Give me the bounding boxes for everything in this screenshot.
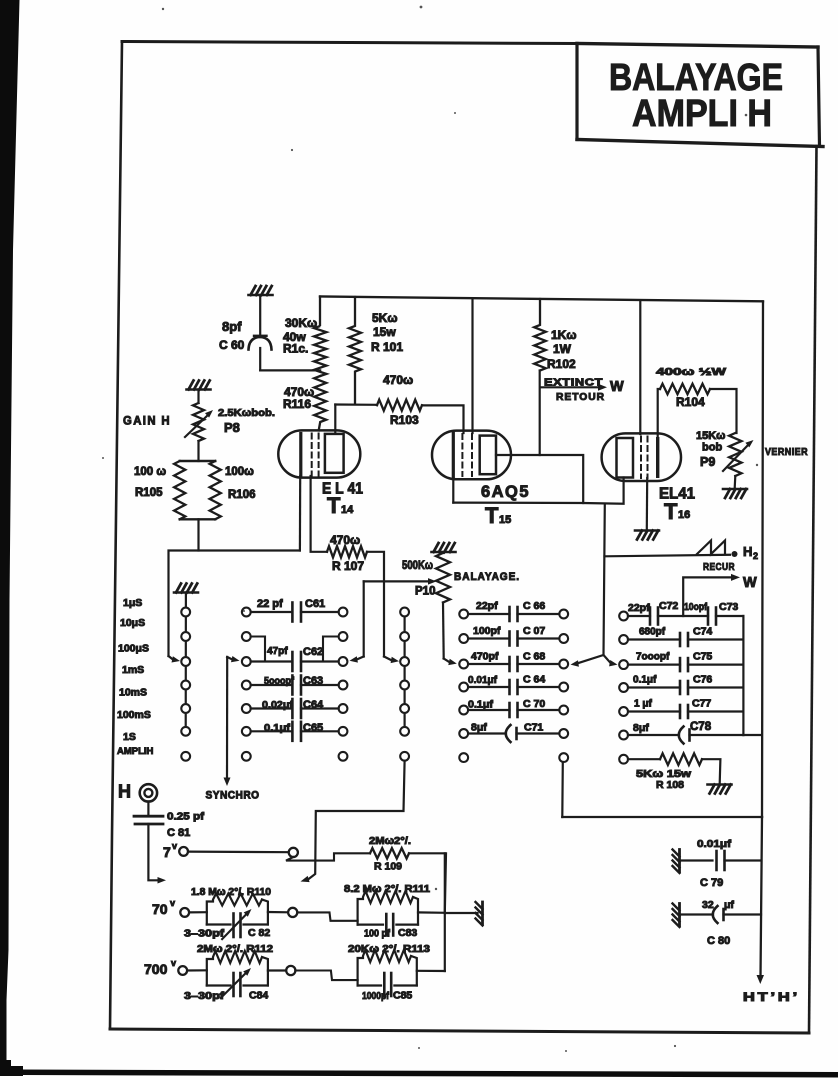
title box "BALAYAGE AMPLI H" — [577, 44, 823, 147]
wire: 7v to link contact — [188, 850, 289, 853]
ground below R108 — [708, 783, 732, 786]
svg-text:1000pf: 1000pf — [362, 991, 390, 1002]
svg-text:C61: C61 — [305, 598, 325, 610]
svg-text:v: v — [172, 841, 177, 851]
svg-text:RECUR: RECUR — [703, 562, 735, 573]
svg-text:C 82: C 82 — [248, 927, 270, 939]
T14 anode box — [325, 434, 344, 473]
capacitor C73 100pf — [683, 615, 708, 617]
svg-text:R 109: R 109 — [374, 861, 402, 873]
capacitor C85 1000pf (bottom of box) — [358, 984, 381, 986]
svg-text:RETOUR: RETOUR — [556, 391, 605, 403]
svg-text:470ω: 470ω — [383, 373, 413, 387]
wire: R113 to common node — [417, 970, 445, 972]
svg-text:C 60: C 60 — [219, 338, 245, 352]
capacitor C64 0.02uf — [251, 707, 293, 709]
switch contacts column A — [181, 608, 190, 617]
svg-text:10mS: 10mS — [119, 687, 147, 699]
capacitor C70 0.1uf — [468, 709, 509, 711]
svg-text:C84: C84 — [249, 990, 268, 1002]
svg-text:500Kω: 500Kω — [402, 560, 433, 572]
wire: R109 to common node — [409, 853, 446, 913]
svg-text:C 70: C 70 — [523, 698, 545, 710]
svg-text:100ω: 100ω — [225, 466, 254, 478]
capacitor C75 7000pf — [628, 663, 680, 665]
svg-text:8pf: 8pf — [222, 319, 242, 334]
capacitor C69 0.01uf (labelled C64) — [468, 686, 509, 688]
svg-text:22pf: 22pf — [476, 600, 498, 612]
wire: R101/R103 to T14 anode — [335, 403, 377, 405]
svg-text:100 pf: 100 pf — [364, 929, 391, 940]
wire: C60 to R100/R116 junction — [260, 369, 320, 371]
sawtooth waveform symbol — [697, 541, 725, 555]
svg-text:AMPLI H: AMPLI H — [632, 93, 772, 135]
wire: R102 down to T15 anode line — [539, 371, 541, 456]
wire: C81 down to AMPLI link arrow — [148, 824, 158, 880]
scan artifact: left black strip — [0, 0, 23, 1076]
svg-text:R 101: R 101 — [371, 340, 403, 354]
svg-text:8μf: 8μf — [633, 722, 649, 734]
wire: common node vertical — [444, 853, 446, 971]
svg-text:22pf: 22pf — [628, 602, 650, 614]
capacitor C68 470pf — [468, 663, 509, 665]
resistor R112 2M 2% (top of box) — [207, 951, 268, 986]
chassis hatch (attenuator common) — [481, 902, 484, 924]
svg-text:SYNCHRO: SYNCHRO — [206, 790, 260, 802]
switch contacts column D — [400, 608, 409, 617]
wire: riser from cathode loop down to wiper F/G — [604, 504, 605, 655]
wire: 700v jog to R113 — [295, 971, 357, 981]
resistor R109 2M 2% — [370, 848, 409, 858]
svg-text:R105: R105 — [135, 487, 163, 499]
svg-text:W: W — [743, 575, 757, 591]
svg-text:P8: P8 — [224, 420, 240, 435]
terminal H input — [140, 784, 157, 801]
svg-text:C62: C62 — [303, 646, 323, 658]
wire: R108 to ground — [702, 759, 720, 783]
wire: R104 to P9 — [710, 389, 737, 433]
svg-text:0.01μf: 0.01μf — [468, 675, 498, 686]
T16 anode box — [617, 438, 634, 478]
svg-text:C83: C83 — [398, 927, 417, 939]
border frame of schematic page — [110, 42, 817, 1034]
svg-text:0.1μf: 0.1μf — [633, 675, 657, 686]
wire: cathode rail to switch wiper A — [169, 551, 300, 657]
switch contacts column E — [459, 610, 468, 619]
wire: H to C81 — [147, 802, 149, 816]
svg-text:100pf: 100pf — [473, 625, 501, 637]
svg-text:C85: C85 — [393, 990, 412, 1002]
svg-text:1.8 Mω 2°/. R110: 1.8 Mω 2°/. R110 — [191, 887, 271, 898]
chassis hatch for C79 — [678, 850, 681, 872]
tube T15 6AQ5 envelope — [432, 431, 511, 480]
svg-text:1μS: 1μS — [123, 597, 142, 609]
T15 grid2 (dashed) pin — [471, 434, 473, 476]
wire: box to link contact (70v row) — [268, 911, 288, 913]
wire: switch column D common — [404, 612, 406, 731]
capacitor C71 8uf electrolytic — [468, 732, 506, 734]
svg-text:15w: 15w — [373, 325, 396, 339]
resistor R101 5K 15w — [349, 297, 361, 404]
wire: R105/R106 to cathode rail — [197, 519, 199, 550]
svg-text:H: H — [118, 782, 131, 802]
svg-text:R104: R104 — [676, 395, 705, 409]
resistor R116 470w — [314, 376, 326, 430]
svg-text:2.5Kωbob.: 2.5Kωbob. — [218, 407, 275, 419]
ground below T16 — [635, 529, 659, 532]
svg-text:100μS: 100μS — [118, 643, 149, 655]
wire: contacts B2/C2 tied to row 3 — [251, 637, 265, 662]
svg-text:10μS: 10μS — [120, 617, 145, 629]
ground above P10 — [432, 551, 456, 554]
T14 grid (dashed) pin — [311, 434, 313, 476]
svg-text:15Kω: 15Kω — [696, 430, 725, 442]
svg-text:C 66: C 66 — [523, 600, 545, 612]
wire: T16 grid2 to ground — [646, 478, 649, 529]
wire: 70v to R110 — [189, 911, 207, 913]
svg-text:R102: R102 — [547, 357, 576, 371]
T14 cathode bar — [299, 434, 302, 477]
wire: R103 to T15 grid — [422, 405, 464, 433]
wire: T16 cathode top to R104 — [658, 389, 660, 438]
svg-text:GAIN H: GAIN H — [123, 414, 171, 428]
wire: T14 grid down to R107 — [311, 476, 327, 552]
resistor R103 470w — [377, 400, 422, 411]
node W: EXTINCT RETOUR output arrow — [541, 386, 601, 388]
svg-text:8μf: 8μf — [471, 722, 487, 734]
capacitor C74 680pf — [628, 638, 680, 640]
switch contacts column C — [339, 608, 348, 617]
svg-text:2: 2 — [753, 551, 758, 561]
svg-text:C75: C75 — [693, 651, 712, 663]
capacitor C65 0.1uf — [251, 730, 293, 732]
link contact (7v row) — [289, 848, 298, 857]
svg-text:R103: R103 — [390, 413, 419, 427]
svg-text:R106: R106 — [228, 489, 256, 501]
svg-text:1Kω: 1Kω — [551, 328, 576, 342]
svg-text:BALAYAGE.: BALAYAGE. — [454, 571, 520, 583]
T15 grid (dashed) pin — [461, 434, 463, 476]
svg-text:VERNIER: VERNIER — [765, 447, 808, 458]
switch contacts column G — [619, 612, 628, 621]
potentiometer P9 15K bob — [723, 433, 749, 476]
trimmer capacitor C82 3-30pf (bottom of box) — [207, 923, 231, 925]
wire: contact F7 down to HT rail — [561, 762, 564, 817]
svg-text:7: 7 — [163, 844, 171, 860]
svg-text:R 108: R 108 — [656, 779, 684, 791]
svg-text:8.2 Mω 2°/. R111: 8.2 Mω 2°/. R111 — [344, 884, 430, 895]
svg-text:5ooopf: 5ooopf — [264, 676, 295, 687]
capacitor C63 5000pf — [251, 684, 293, 686]
svg-text:470ω: 470ω — [330, 533, 360, 547]
wire: R111 to common node and chassis — [418, 911, 445, 914]
capacitor C81 0.25pf — [134, 815, 163, 818]
wire: SYNCHRO lead down — [226, 657, 228, 779]
wire: cathode loop over to T16 anode — [583, 478, 623, 504]
wire: HT bus drop to T16 grid — [639, 302, 641, 435]
svg-text:2Mω 2°/. R112: 2Mω 2°/. R112 — [197, 944, 273, 955]
wire: T15 anode to R102 drop and down — [453, 455, 583, 503]
wire: switch column A common — [185, 593, 187, 732]
resistor R113 20K 2% (top of box) — [358, 950, 417, 986]
capacitor C76 0.1uf — [628, 686, 680, 688]
resistor R107 470w — [327, 546, 367, 557]
wire: box to link contact (700v row) — [268, 969, 286, 971]
wire: T15 cathode down — [452, 477, 454, 503]
wire: 70v jog to R111 — [297, 912, 357, 920]
svg-text:C72: C72 — [659, 600, 678, 612]
svg-text:T: T — [485, 503, 499, 528]
P10 wiper arrow — [364, 580, 429, 582]
svg-text:C 07: C 07 — [523, 625, 545, 637]
svg-text:1 μf: 1 μf — [634, 699, 652, 710]
wire: P10 wiper to contact C3 — [363, 581, 365, 656]
resistor R110 1.8M 2% (top of box) — [207, 894, 268, 925]
svg-text:6AQ5: 6AQ5 — [481, 483, 530, 501]
terminal 700v — [178, 966, 187, 975]
switch contacts column B — [242, 608, 251, 617]
capacitor C79 0.01uf — [680, 859, 713, 861]
T16 grid (dashed) pin — [640, 437, 642, 479]
ground above P8 — [187, 388, 211, 391]
T15 anode box — [480, 436, 496, 475]
svg-text:v: v — [170, 898, 175, 908]
svg-text:2Mω2°/.: 2Mω2°/. — [369, 836, 411, 847]
wire: RECUR W output arrow — [683, 577, 733, 614]
switch contacts column F — [559, 610, 568, 619]
svg-text:C 80: C 80 — [707, 935, 730, 947]
svg-text:680pf: 680pf — [639, 627, 666, 638]
svg-text:C73: C73 — [719, 601, 738, 613]
wire: 7v jog to R109 — [286, 853, 370, 860]
svg-text:700: 700 — [144, 961, 168, 977]
svg-text:70: 70 — [152, 901, 168, 917]
svg-text:0.1μf: 0.1μf — [264, 723, 291, 734]
capacitor C83 100pf (bottom of box) — [358, 923, 383, 925]
svg-text:16: 16 — [678, 509, 690, 521]
wire: R107 to switch wiper D — [367, 552, 384, 657]
svg-text:7ooopf: 7ooopf — [636, 652, 670, 663]
svg-text:C77: C77 — [692, 698, 711, 710]
resistor R104 400w — [660, 384, 710, 394]
svg-text:R1c.: R1c. — [283, 342, 308, 356]
svg-text:AMPLIH: AMPLIH — [117, 746, 154, 757]
svg-text:3–30pf: 3–30pf — [184, 929, 225, 940]
svg-text:47pf: 47pf — [267, 646, 288, 657]
svg-text:20Kω 2°/. R113: 20Kω 2°/. R113 — [348, 944, 430, 955]
svg-text:3–30pf: 3–30pf — [184, 991, 225, 1002]
capacitor C62 47pf — [251, 660, 293, 662]
svg-text:0.01μf: 0.01μf — [697, 838, 732, 850]
svg-text:0.02μf: 0.02μf — [262, 700, 294, 711]
svg-text:C65: C65 — [303, 722, 323, 734]
svg-text:10opf: 10opf — [684, 602, 708, 613]
svg-text:C76: C76 — [693, 674, 712, 686]
svg-text:1W: 1W — [553, 342, 572, 356]
resistor R100 30K 40w — [314, 297, 326, 377]
T14 grid2 (dashed) pin — [318, 434, 320, 476]
resistor R111 8.2M 2% (top of box) — [358, 891, 418, 925]
svg-text:5Kω: 5Kω — [372, 311, 397, 325]
resistor R108 5K 15w — [660, 753, 702, 765]
T16 grid2 (dashed) pin — [647, 437, 649, 479]
svg-text:1S: 1S — [123, 731, 136, 743]
scan speckles (decorative) — [102, 6, 758, 1052]
tube T14 EL41 envelope — [278, 430, 360, 477]
svg-text:100mS: 100mS — [117, 709, 151, 721]
trimmer capacitor C84 3-30pf (bottom of box) — [207, 984, 231, 986]
capacitor C67 100pf — [468, 637, 509, 639]
capacitor C80 32uf electrolytic — [680, 913, 714, 915]
svg-text:W: W — [610, 379, 624, 395]
resistor R102 1K 1W — [534, 299, 546, 371]
wire: P9 to ground — [734, 476, 737, 488]
svg-text:bob: bob — [702, 442, 722, 454]
tube T16 EL41 envelope — [602, 433, 681, 481]
svg-text:T: T — [327, 493, 341, 518]
svg-text:32: 32 — [702, 899, 714, 911]
svg-text:1mS: 1mS — [122, 664, 144, 676]
svg-text:R 107: R 107 — [332, 559, 364, 573]
scan artifact: bottom page-edge line — [20, 1070, 838, 1078]
T16 cathode bar — [656, 439, 659, 477]
wire: HT rail bottom edge — [562, 816, 762, 818]
capacitor C66 22pf — [468, 613, 509, 615]
potentiometer P8 2.5K bob — [185, 390, 209, 442]
wire: contact G7 to R108 — [628, 758, 660, 760]
capacitor C61 22pf — [251, 611, 293, 613]
terminal 70v — [180, 908, 189, 917]
svg-text:T: T — [664, 499, 678, 524]
ground above switch column A — [174, 591, 198, 594]
wire: HT bus right corner down (inner box right edge) — [762, 301, 763, 817]
capacitor C72 22pf — [628, 615, 650, 617]
svg-text:30Kω: 30Kω — [285, 316, 317, 330]
svg-text:R116: R116 — [283, 397, 311, 411]
svg-text:P10: P10 — [415, 586, 435, 598]
wire: HT bus drop to T15 screen — [471, 299, 473, 433]
wire: P8 to R105/R106 — [197, 441, 199, 461]
svg-text:100 ω: 100 ω — [134, 466, 166, 478]
svg-text:C 81: C 81 — [167, 827, 190, 839]
svg-text:0.25 pf: 0.25 pf — [167, 811, 205, 823]
svg-text:C74: C74 — [693, 626, 712, 638]
svg-text:C64: C64 — [303, 699, 324, 711]
capacitor C77 1uf — [628, 710, 680, 712]
ground above C60 — [249, 294, 273, 297]
wire: HT+ top bus — [320, 297, 763, 302]
svg-text:14: 14 — [341, 504, 354, 516]
wire: SYNCHRO tap to contact B3 — [239, 659, 241, 661]
wire: contact D7 down to AMPLI link — [308, 761, 405, 880]
svg-text:v: v — [171, 958, 176, 968]
svg-text:H: H — [743, 544, 752, 559]
svg-text:C71: C71 — [524, 722, 543, 734]
svg-text:C 64: C 64 — [523, 674, 545, 686]
wire: T14 cathode down to rail — [299, 476, 302, 551]
svg-text:C 79: C 79 — [700, 877, 723, 889]
svg-text:400ω ½W: 400ω ½W — [656, 366, 726, 378]
link contact (70v row) — [288, 908, 297, 917]
svg-text:22 pf: 22 pf — [257, 598, 283, 610]
wire: H2 output — [605, 555, 731, 557]
potentiometer P10 500K — [436, 552, 450, 603]
link contact (700v row) — [286, 966, 295, 975]
chassis hatch for C80 — [678, 904, 681, 926]
svg-text:470pf: 470pf — [471, 651, 499, 663]
wire: 700v to R112 — [187, 969, 207, 971]
svg-text:HT’H’: HT’H’ — [743, 992, 800, 1004]
capacitor C60 8pf — [249, 295, 272, 370]
wire: HT drop to HT H output — [761, 817, 763, 977]
capacitor C78 8uf electrolytic — [628, 734, 679, 736]
svg-text:C63: C63 — [303, 675, 323, 687]
svg-text:0.1μf: 0.1μf — [468, 700, 494, 711]
svg-text:15: 15 — [499, 514, 511, 526]
terminal 7v — [179, 847, 188, 856]
T15 cathode bar — [452, 434, 455, 478]
svg-text:C78: C78 — [690, 721, 712, 733]
svg-text:P9: P9 — [700, 455, 715, 469]
svg-text:EXTINCT: EXTINCT — [544, 377, 603, 389]
ground below P9 — [723, 488, 747, 491]
svg-text:C 68: C 68 — [523, 651, 545, 663]
svg-text:μf: μf — [724, 899, 734, 911]
wire: P10 bottom to contact E3 — [442, 603, 445, 659]
resistors R105 + R106 100w parallel pair — [174, 461, 221, 519]
wire: bank3 right bus — [742, 616, 744, 735]
